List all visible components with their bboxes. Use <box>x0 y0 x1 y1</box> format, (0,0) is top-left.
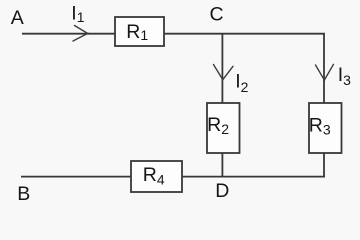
wire R1 to top-right corner <box>163 33 325 35</box>
svg-text:D: D <box>215 180 229 202</box>
current arrow I1 <box>73 26 88 42</box>
wire R3 bottom to bottom-right corner <box>323 153 325 178</box>
resistor R2 <box>207 103 240 153</box>
wire node C down to R2 <box>221 33 223 104</box>
current arrow I2 <box>214 65 234 81</box>
resistor R3 <box>309 103 342 153</box>
svg-text:A: A <box>11 7 24 29</box>
wire R2 bottom to node D <box>221 153 223 178</box>
wire R4 through D to bottom-right corner <box>181 176 325 178</box>
wire A to R1 <box>22 33 116 35</box>
resistor R4 <box>131 161 182 192</box>
current arrow I3 <box>316 64 334 81</box>
wire B to R4 <box>21 176 132 178</box>
svg-text:B: B <box>17 183 30 204</box>
resistor R1 <box>115 17 164 46</box>
svg-text:C: C <box>210 4 224 26</box>
wire right branch down to R3 <box>323 33 325 104</box>
